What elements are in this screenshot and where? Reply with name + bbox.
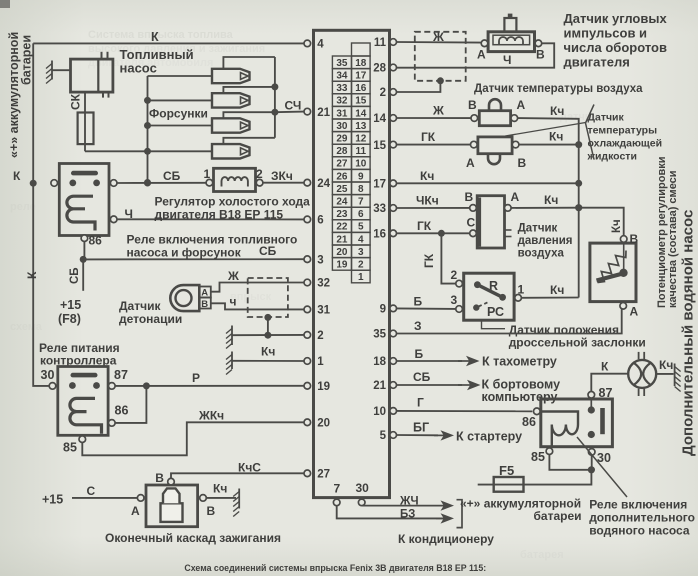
svg-text:ЗКч: ЗКч bbox=[271, 169, 293, 183]
svg-text:Датчик температуры воздуха: Датчик температуры воздуха bbox=[474, 83, 643, 95]
svg-text:числа оборотов: числа оборотов bbox=[564, 40, 667, 55]
svg-text:детонации: детонации bbox=[119, 312, 182, 326]
air pressure sensor bbox=[477, 196, 504, 248]
wire pin7 BZ to conditioner bbox=[337, 506, 445, 519]
svg-text:двигателя В18 ЕР 115: двигателя В18 ЕР 115 bbox=[155, 208, 284, 222]
svg-text:5: 5 bbox=[380, 430, 387, 442]
svg-text:А: А bbox=[630, 305, 639, 319]
svg-text:Кч: Кч bbox=[549, 130, 563, 144]
svg-text:35: 35 bbox=[373, 329, 386, 341]
wire +15 F8 stub bbox=[82, 259, 84, 290]
wire coolant Kch to bus bbox=[519, 144, 579, 146]
wire pin 10 G to relay 86 bbox=[397, 410, 533, 412]
svg-text:ГК: ГК bbox=[417, 219, 432, 233]
svg-text:1: 1 bbox=[358, 272, 364, 283]
svg-text:схема: схема bbox=[10, 321, 43, 333]
svg-text:18: 18 bbox=[373, 356, 386, 368]
svg-text:32: 32 bbox=[336, 96, 348, 107]
svg-text:3: 3 bbox=[451, 293, 458, 307]
wire ch to pin 31 bbox=[211, 303, 304, 309]
svg-text:А: А bbox=[511, 190, 520, 204]
svg-text:Датчик: Датчик bbox=[518, 223, 558, 235]
ECU pin table bbox=[352, 43, 371, 56]
svg-text:22: 22 bbox=[336, 222, 348, 233]
ECU connector outline bbox=[314, 30, 390, 497]
wire injector 4 feed bbox=[223, 138, 275, 144]
svg-text:2: 2 bbox=[256, 167, 263, 181]
crank sensor bbox=[488, 32, 534, 52]
wire pin 17 Kch bbox=[397, 182, 579, 184]
wire injector 3 feed bbox=[223, 112, 275, 118]
svg-text:34: 34 bbox=[336, 71, 348, 82]
svg-text:1: 1 bbox=[204, 167, 211, 181]
wire ZKch to pin 24 bbox=[263, 182, 304, 184]
svg-text:87: 87 bbox=[599, 386, 613, 400]
svg-text:86: 86 bbox=[522, 415, 536, 429]
svg-text:Реле включения топливного: Реле включения топливного bbox=[127, 233, 298, 247]
wire pin 33 ChKch bbox=[397, 207, 470, 209]
svg-text:3: 3 bbox=[317, 254, 323, 266]
svg-text:батареи: батареи bbox=[20, 35, 34, 85]
svg-text:85: 85 bbox=[531, 450, 545, 464]
wire pot B Kch to bus bbox=[579, 208, 624, 236]
svg-text:33: 33 bbox=[336, 83, 348, 94]
wire pin 21 SB to board computer bbox=[397, 384, 463, 386]
svg-text:К тахометру: К тахометру bbox=[482, 355, 557, 369]
injector 4 bbox=[148, 150, 213, 152]
wire pin 18 B to tachometer bbox=[397, 360, 463, 362]
svg-text:11: 11 bbox=[356, 146, 367, 157]
svg-text:В: В bbox=[468, 98, 477, 112]
wire pin 2 to shield bbox=[397, 81, 441, 92]
svg-text:Кч: Кч bbox=[420, 169, 434, 183]
injector 2 bbox=[148, 99, 213, 101]
svg-text:6: 6 bbox=[317, 215, 323, 227]
svg-text:19: 19 bbox=[336, 260, 348, 271]
callout relay K3 bbox=[577, 437, 627, 497]
junction shield crank bbox=[437, 77, 444, 84]
svg-text:33: 33 bbox=[373, 203, 386, 215]
svg-text:К: К bbox=[25, 271, 39, 279]
wire 86 down to SB node bbox=[83, 242, 84, 260]
svg-text:+15: +15 bbox=[60, 298, 81, 312]
svg-text:85: 85 bbox=[63, 441, 77, 455]
bracket conditioner bbox=[457, 500, 463, 528]
svg-text:27: 27 bbox=[336, 159, 348, 170]
svg-text:F5: F5 bbox=[499, 463, 514, 478]
svg-text:24: 24 bbox=[336, 197, 348, 208]
svg-text:Регулятор холостого хода: Регулятор холостого хода bbox=[155, 195, 311, 209]
svg-text:Оконечный каскад зажигания: Оконечный каскад зажигания bbox=[105, 531, 281, 545]
svg-text:К: К bbox=[151, 30, 159, 44]
svg-text:К: К bbox=[13, 169, 21, 183]
wire lamp Kch to ground bbox=[656, 373, 673, 375]
svg-text:насоса и форсунок: насоса и форсунок bbox=[127, 246, 242, 260]
scan background texture bbox=[10, 29, 598, 561]
svg-text:4: 4 bbox=[317, 39, 324, 51]
svg-text:А: А bbox=[466, 156, 475, 170]
svg-text:5: 5 bbox=[358, 222, 364, 233]
svg-text:Б: Б bbox=[414, 295, 423, 309]
shield dashed box knock bbox=[248, 278, 288, 317]
svg-text:6: 6 bbox=[358, 209, 364, 220]
svg-text:РС: РС bbox=[487, 305, 504, 319]
svg-text:Кч: Кч bbox=[261, 345, 275, 359]
svg-text:15: 15 bbox=[373, 140, 386, 152]
svg-text:батареи: батареи bbox=[534, 509, 582, 523]
svg-text:Кч: Кч bbox=[659, 358, 673, 372]
svg-text:В: В bbox=[630, 232, 639, 246]
svg-text:охлаждающей: охлаждающей bbox=[588, 138, 663, 150]
ECU left pins bbox=[304, 40, 311, 47]
svg-text:З: З bbox=[414, 319, 422, 333]
svg-text:К кондиционеру: К кондиционеру bbox=[398, 532, 494, 546]
relay K1 terminals bbox=[51, 180, 58, 187]
fuse F5 bbox=[494, 477, 524, 492]
svg-text:17: 17 bbox=[355, 71, 367, 82]
wire Kch to ground bbox=[206, 497, 236, 499]
svg-text:В: В bbox=[536, 48, 545, 62]
svg-text:20: 20 bbox=[336, 247, 348, 258]
svg-text:21: 21 bbox=[336, 234, 348, 245]
svg-text:16: 16 bbox=[355, 83, 367, 94]
wire pin 11 Zh to crank sensor A bbox=[397, 41, 482, 44]
svg-text:23: 23 bbox=[336, 209, 348, 220]
shield dashed box crank sensor bbox=[415, 32, 466, 81]
svg-text:Ж: Ж bbox=[227, 269, 239, 283]
wire 85/30 to fuse F5 bbox=[549, 455, 591, 470]
svg-text:11: 11 bbox=[374, 37, 387, 49]
svg-text:В: В bbox=[518, 156, 527, 170]
svg-text:давления: давления bbox=[518, 235, 573, 247]
svg-text:СБ: СБ bbox=[69, 267, 81, 284]
ignition output stage bbox=[146, 485, 198, 527]
ECU bottom pins 7 30 bbox=[333, 499, 340, 506]
svg-text:импульсов и: импульсов и bbox=[564, 26, 648, 41]
svg-text:ЧКч: ЧКч bbox=[416, 194, 439, 208]
wire Zh to pin 32 bbox=[211, 283, 304, 292]
svg-text:9: 9 bbox=[358, 171, 364, 182]
wire pin 9 B to throttle 3 bbox=[397, 307, 456, 310]
wire injector 1 feed bbox=[223, 57, 275, 69]
svg-text:30: 30 bbox=[336, 121, 348, 132]
wire K1 out SB bbox=[117, 182, 206, 184]
svg-text:24: 24 bbox=[317, 178, 330, 190]
svg-text:БЗ: БЗ bbox=[400, 508, 415, 520]
wire crank B to pin 28 bbox=[397, 43, 555, 67]
injector 1 bbox=[148, 75, 213, 77]
svg-text:13: 13 bbox=[355, 121, 367, 132]
ground fuel pump bbox=[51, 61, 53, 80]
svg-text:10: 10 bbox=[355, 159, 367, 170]
ECU right pins bbox=[390, 39, 397, 46]
svg-text:Дополнительный водяной насос: Дополнительный водяной насос bbox=[680, 210, 697, 456]
svg-text:Кч: Кч bbox=[213, 482, 227, 496]
svg-text:С: С bbox=[467, 216, 476, 230]
svg-text:Б: Б bbox=[415, 347, 424, 361]
svg-text:ЖКч: ЖКч bbox=[198, 409, 224, 423]
wire injector 2 feed bbox=[223, 87, 275, 93]
wire R to pin 19 bbox=[115, 385, 304, 387]
wire throttle 1 Kch to bus bbox=[521, 297, 578, 299]
svg-text:18: 18 bbox=[355, 58, 367, 69]
ground pin1 Kch bbox=[231, 352, 233, 370]
wire 86 to R junction bbox=[115, 386, 146, 423]
ground shield bbox=[231, 326, 233, 346]
svg-text:Ч: Ч bbox=[125, 207, 133, 221]
svg-text:БГ: БГ bbox=[413, 421, 429, 435]
svg-text:32: 32 bbox=[317, 278, 330, 290]
svg-text:2: 2 bbox=[380, 87, 386, 99]
svg-text:СК: СК bbox=[69, 93, 83, 110]
fuel pump M1 bbox=[71, 59, 113, 92]
svg-text:Ж: Ж bbox=[432, 30, 444, 44]
svg-text:14: 14 bbox=[355, 108, 367, 119]
wire pin 5 BG to starter bbox=[397, 434, 439, 436]
svg-text:Форсунки: Форсунки bbox=[149, 106, 208, 120]
wire 85 ZhKch to pin 20 bbox=[82, 422, 304, 455]
svg-text:9: 9 bbox=[380, 304, 386, 316]
svg-text:19: 19 bbox=[317, 381, 330, 393]
svg-text:3: 3 bbox=[358, 247, 364, 258]
svg-text:17: 17 bbox=[373, 179, 386, 191]
svg-text:ЖЧ: ЖЧ bbox=[399, 496, 419, 508]
svg-text:В: В bbox=[201, 299, 208, 310]
wire pin 16 GK bbox=[397, 232, 470, 234]
wire SB to pin 3 bbox=[83, 258, 304, 260]
svg-text:Система впрыска топлива: Система впрыска топлива bbox=[88, 29, 234, 41]
svg-text:В: В bbox=[465, 190, 474, 204]
throttle position sensor bbox=[464, 273, 514, 320]
svg-text:батарея: батарея bbox=[520, 549, 564, 561]
svg-text:14: 14 bbox=[373, 113, 386, 125]
svg-text:качества (состава) смеси: качества (состава) смеси bbox=[667, 170, 679, 308]
svg-text:Кч: Кч bbox=[550, 104, 564, 118]
svg-text:температуры: температуры bbox=[588, 125, 658, 137]
svg-text:Схема соединений системы впрыс: Схема соединений системы впрыска Fenix 3… bbox=[184, 563, 486, 573]
injector right bus bbox=[274, 57, 276, 138]
idle speed regulator bbox=[214, 168, 256, 191]
svg-text:двигателя: двигателя bbox=[564, 55, 630, 70]
svg-text:А: А bbox=[131, 504, 140, 518]
svg-text:2: 2 bbox=[317, 330, 323, 342]
relay K3 water pump bbox=[541, 399, 613, 447]
svg-text:87: 87 bbox=[114, 368, 128, 382]
svg-text:Датчик: Датчик bbox=[119, 299, 161, 313]
svg-text:21: 21 bbox=[317, 107, 330, 119]
svg-text:Датчик: Датчик bbox=[588, 112, 625, 124]
svg-text:28: 28 bbox=[373, 63, 386, 75]
svg-text:86: 86 bbox=[115, 404, 129, 418]
svg-text:В: В bbox=[207, 504, 216, 518]
svg-text:С: С bbox=[87, 484, 96, 498]
svg-text:насос: насос bbox=[120, 61, 157, 76]
wire K bus down to relay K2 bbox=[33, 183, 49, 386]
junction battery/relay bbox=[30, 180, 37, 187]
svg-text:А: А bbox=[517, 98, 526, 112]
svg-text:водяного насоса: водяного насоса bbox=[589, 524, 690, 538]
svg-text:Г: Г bbox=[417, 396, 424, 410]
svg-text:Кч: Кч bbox=[544, 193, 558, 207]
svg-text:К: К bbox=[601, 360, 609, 374]
wire battery vertical K bus bbox=[32, 43, 34, 183]
svg-text:31: 31 bbox=[336, 108, 348, 119]
svg-text:1: 1 bbox=[518, 283, 525, 297]
svg-text:1: 1 bbox=[317, 356, 324, 368]
svg-text:35: 35 bbox=[336, 58, 348, 69]
svg-text:+15: +15 bbox=[42, 493, 63, 507]
svg-text:25: 25 bbox=[336, 184, 348, 195]
Kch bus vertical bbox=[578, 145, 580, 298]
svg-text:компьютеру: компьютеру bbox=[482, 390, 558, 404]
svg-text:20: 20 bbox=[317, 418, 330, 430]
svg-text:А: А bbox=[201, 288, 208, 299]
svg-text:30: 30 bbox=[356, 481, 370, 495]
wire shield ground to pin 2 bbox=[232, 334, 304, 336]
air temp sensor bbox=[479, 111, 510, 126]
svg-text:21: 21 bbox=[373, 380, 386, 392]
injector 3 bbox=[148, 125, 213, 127]
svg-text:ГК: ГК bbox=[422, 253, 436, 268]
svg-text:7: 7 bbox=[334, 482, 341, 496]
relay K1 fuel pump/injectors bbox=[59, 164, 109, 236]
svg-text:Реле включения: Реле включения bbox=[589, 498, 687, 512]
svg-text:дроссельной заслонки: дроссельной заслонки bbox=[509, 336, 646, 350]
svg-text:Кч: Кч bbox=[611, 219, 623, 233]
svg-text:Кч: Кч bbox=[550, 283, 564, 297]
wire relay 87 K to lamp bbox=[591, 374, 628, 392]
svg-text:реле: реле bbox=[10, 201, 36, 213]
svg-text:2: 2 bbox=[451, 268, 458, 282]
svg-text:В: В bbox=[155, 471, 164, 485]
wire pin 14 Zh bbox=[397, 117, 472, 119]
svg-text:30: 30 bbox=[41, 368, 55, 382]
svg-text:Ч: Ч bbox=[503, 53, 511, 67]
svg-text:СЧ: СЧ bbox=[285, 99, 302, 113]
svg-text:СБ: СБ bbox=[163, 169, 181, 183]
wire K1 ch to pin 6 bbox=[117, 218, 304, 220]
svg-text:12: 12 bbox=[355, 134, 367, 145]
potentiometer CO adjust bbox=[590, 243, 636, 302]
junction SB/+15 bbox=[80, 256, 87, 263]
wire pin 15 GK bbox=[397, 144, 471, 146]
svg-text:Ж: Ж bbox=[432, 104, 444, 118]
wire GK down to throttle 2 bbox=[441, 233, 455, 283]
wire pin30 ZhCh to conditioner bbox=[362, 505, 444, 507]
svg-text:26: 26 bbox=[336, 171, 348, 182]
svg-text:7: 7 bbox=[358, 197, 364, 208]
svg-text:29: 29 bbox=[336, 134, 348, 145]
svg-text:КчС: КчС bbox=[238, 461, 261, 475]
relay K1 coil bbox=[67, 196, 95, 230]
wire pin 35 Z to pot A bbox=[397, 309, 622, 333]
svg-text:4: 4 bbox=[358, 234, 364, 245]
injector left bus bbox=[147, 76, 149, 183]
svg-text:ГК: ГК bbox=[421, 130, 436, 144]
wire fuse to injector bus bbox=[85, 150, 148, 152]
svg-text:А: А bbox=[477, 48, 486, 62]
wire top K feed to pin 4 bbox=[33, 42, 304, 44]
wire pressure A Kch to bus bbox=[511, 207, 579, 209]
svg-text:(F8): (F8) bbox=[58, 312, 81, 326]
svg-text:ч: ч bbox=[230, 295, 237, 309]
svg-text:СБ: СБ bbox=[413, 370, 431, 384]
wire SCh to pin 21 bbox=[275, 111, 304, 114]
relay K2 controller power bbox=[58, 367, 108, 436]
svg-text:16: 16 bbox=[373, 229, 386, 241]
svg-text:2: 2 bbox=[358, 260, 364, 271]
wire air temp Kch to bus bbox=[518, 118, 579, 145]
svg-text:К стартеру: К стартеру bbox=[456, 430, 522, 444]
svg-text:воздуха: воздуха bbox=[518, 248, 565, 260]
svg-text:27: 27 bbox=[317, 469, 330, 481]
svg-text:28: 28 bbox=[336, 146, 348, 157]
knock sensor bbox=[170, 285, 199, 311]
coolant temp sensor bbox=[478, 137, 512, 154]
wire +15 C input bbox=[72, 497, 137, 499]
svg-text:Датчик угловых: Датчик угловых bbox=[564, 11, 668, 26]
wire KchS to pin 27 bbox=[171, 473, 304, 478]
svg-text:31: 31 bbox=[317, 305, 330, 317]
svg-text:15: 15 bbox=[355, 96, 367, 107]
svg-text:8: 8 bbox=[358, 184, 364, 195]
svg-text:10: 10 bbox=[373, 406, 386, 418]
water pump motor lamp bbox=[628, 360, 656, 388]
svg-text:Р: Р bbox=[192, 371, 200, 385]
svg-text:дополнительного: дополнительного bbox=[589, 511, 695, 525]
svg-text:86: 86 bbox=[89, 234, 103, 248]
